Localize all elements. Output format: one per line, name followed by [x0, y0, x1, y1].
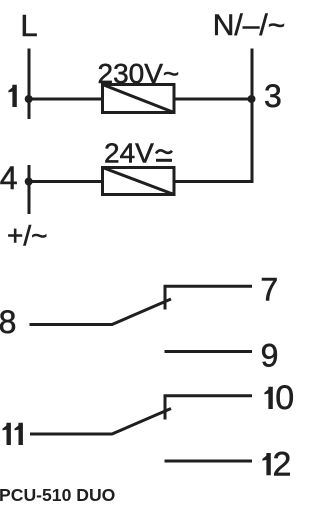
junction dot terminal 3	[248, 95, 256, 103]
contact post and wire to terminal 7	[165, 286, 252, 309]
svg-text:4: 4	[0, 160, 17, 196]
svg-text:+/~: +/~	[7, 220, 47, 251]
svg-text:0: 0	[275, 379, 294, 417]
terminal label 1	[8, 85, 16, 107]
wire N vertical	[174, 49, 252, 182]
contact arm terminal 8	[30, 299, 172, 325]
wire row1 right: coil K1 to terminal 3	[174, 98, 252, 101]
svg-text:L: L	[20, 8, 37, 43]
terminal label 11	[3, 423, 11, 445]
svg-text:24V: 24V	[104, 137, 154, 168]
svg-text:2: 2	[273, 445, 292, 483]
wire row1 left: terminal 1 to coil K1	[29, 98, 103, 101]
svg-text:7: 7	[260, 272, 278, 308]
svg-text:8: 8	[0, 304, 16, 340]
coil K2 24V box	[103, 168, 175, 195]
junction dot terminal 1	[25, 95, 33, 103]
svg-text:N/–/~: N/–/~	[213, 9, 286, 42]
svg-text:3: 3	[264, 78, 282, 114]
svg-text:9: 9	[261, 337, 279, 373]
wire terminal 9	[165, 350, 253, 353]
wire L vertical (terminal 1)	[28, 49, 31, 120]
contact arm terminal 11	[30, 409, 171, 435]
contact post and wire to terminal 10	[165, 396, 252, 420]
terminal label 10	[264, 387, 272, 409]
coil K1 230V box	[103, 85, 175, 113]
svg-text:PCU-510 DUO: PCU-510 DUO	[0, 485, 115, 505]
junction dot terminal 4	[25, 178, 33, 186]
wire terminal 12	[165, 460, 253, 463]
wire row2 left: terminal 4 to coil K2	[29, 180, 103, 183]
wire terminal 4 vertical	[28, 165, 31, 214]
terminal label 12	[262, 453, 270, 475]
